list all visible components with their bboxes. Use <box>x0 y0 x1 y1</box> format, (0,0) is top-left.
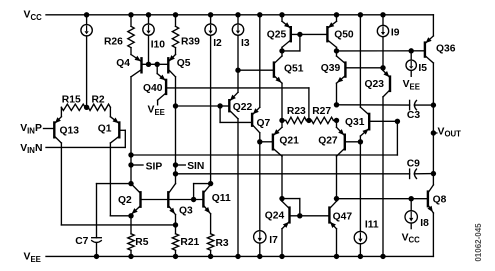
svg-text:I5: I5 <box>418 63 427 74</box>
svg-text:Q27: Q27 <box>318 136 338 147</box>
svg-text:Q21: Q21 <box>279 136 299 147</box>
svg-text:Q23: Q23 <box>365 79 385 90</box>
svg-text:Q25: Q25 <box>267 30 287 41</box>
svg-text:Q4: Q4 <box>116 58 130 69</box>
svg-text:Q24: Q24 <box>265 211 285 222</box>
svg-text:Q47: Q47 <box>333 212 353 223</box>
svg-text:Q3: Q3 <box>179 206 193 217</box>
svg-text:SIP: SIP <box>146 162 163 173</box>
svg-text:R15: R15 <box>62 94 81 105</box>
svg-text:Q40: Q40 <box>143 83 163 94</box>
svg-text:R39: R39 <box>181 36 200 47</box>
svg-text:01062-045: 01062-045 <box>474 223 483 262</box>
svg-text:I11: I11 <box>365 219 379 230</box>
svg-text:C3: C3 <box>407 110 420 121</box>
svg-text:R23: R23 <box>287 106 306 117</box>
svg-text:R2: R2 <box>92 94 105 105</box>
svg-text:C9: C9 <box>407 158 420 169</box>
svg-text:C7: C7 <box>75 236 88 247</box>
svg-text:Q50: Q50 <box>334 30 354 41</box>
svg-text:Q36: Q36 <box>436 44 456 55</box>
svg-text:I10: I10 <box>151 40 166 51</box>
svg-text:I2: I2 <box>213 38 222 49</box>
svg-text:R5: R5 <box>135 237 148 248</box>
svg-text:R27: R27 <box>312 106 331 117</box>
svg-text:I9: I9 <box>391 27 400 38</box>
svg-text:I8: I8 <box>420 218 429 229</box>
svg-text:Q2: Q2 <box>118 195 132 206</box>
svg-text:I7: I7 <box>269 235 278 246</box>
svg-text:R21: R21 <box>180 237 199 248</box>
svg-text:Q13: Q13 <box>60 126 80 137</box>
svg-text:Q11: Q11 <box>212 193 231 204</box>
svg-text:SIN: SIN <box>187 161 204 172</box>
svg-text:Q22: Q22 <box>233 102 253 113</box>
svg-text:Q39: Q39 <box>321 63 341 74</box>
svg-text:I3: I3 <box>241 38 250 49</box>
svg-text:Q31: Q31 <box>345 117 365 128</box>
svg-text:Q51: Q51 <box>284 64 304 75</box>
svg-text:Q7: Q7 <box>257 118 271 129</box>
svg-text:Q5: Q5 <box>177 58 191 69</box>
svg-text:R26: R26 <box>104 36 123 47</box>
svg-text:R3: R3 <box>216 238 229 249</box>
svg-text:Q8: Q8 <box>433 195 447 206</box>
svg-text:Q1: Q1 <box>98 123 112 134</box>
